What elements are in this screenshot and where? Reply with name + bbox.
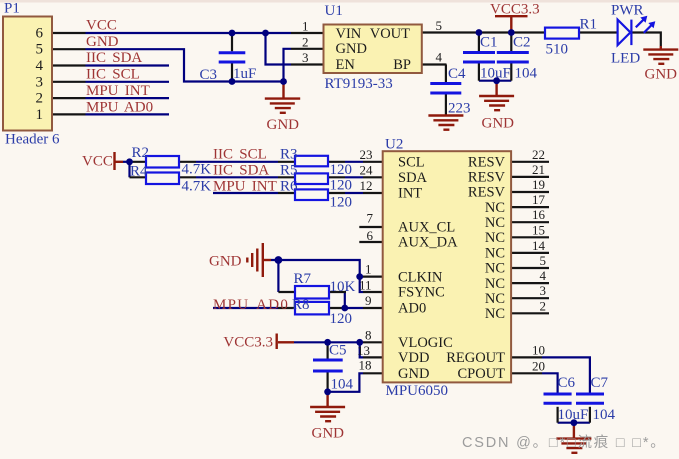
svg-text:NC: NC bbox=[485, 291, 505, 307]
svg-text:NC: NC bbox=[485, 230, 505, 246]
svg-text:120: 120 bbox=[330, 178, 353, 194]
svg-text:4: 4 bbox=[540, 268, 547, 283]
svg-text:RESV: RESV bbox=[468, 185, 506, 201]
svg-text:12: 12 bbox=[360, 178, 373, 193]
svg-text:15: 15 bbox=[532, 222, 545, 237]
svg-text:120: 120 bbox=[330, 195, 353, 211]
svg-text:5: 5 bbox=[436, 18, 443, 33]
svg-text:GND: GND bbox=[336, 41, 367, 57]
svg-text:13: 13 bbox=[357, 343, 370, 358]
svg-text:PWR: PWR bbox=[611, 3, 644, 19]
svg-text:21: 21 bbox=[532, 162, 545, 177]
svg-text:9: 9 bbox=[365, 293, 372, 308]
svg-text:2: 2 bbox=[540, 298, 547, 313]
svg-text:4: 4 bbox=[436, 50, 443, 65]
svg-text:GND: GND bbox=[482, 116, 515, 132]
svg-text:MPU INT: MPU INT bbox=[213, 179, 277, 195]
svg-text:C2: C2 bbox=[513, 35, 531, 51]
svg-text:510: 510 bbox=[546, 42, 569, 58]
svg-text:VDD: VDD bbox=[398, 350, 429, 366]
svg-text:LED: LED bbox=[611, 51, 640, 67]
svg-text:5: 5 bbox=[36, 42, 44, 58]
svg-text:NC: NC bbox=[485, 215, 505, 231]
svg-text:19: 19 bbox=[532, 177, 545, 192]
svg-text:FSYNC: FSYNC bbox=[398, 285, 445, 301]
svg-text:7: 7 bbox=[367, 211, 374, 226]
svg-text:3: 3 bbox=[540, 283, 547, 298]
svg-text:NC: NC bbox=[485, 200, 505, 216]
svg-text:NC: NC bbox=[485, 276, 505, 292]
svg-text:IIC SDA: IIC SDA bbox=[86, 50, 142, 66]
svg-text:VCC3.3: VCC3.3 bbox=[490, 2, 540, 18]
svg-text:C3: C3 bbox=[200, 67, 218, 83]
svg-text:1: 1 bbox=[365, 262, 372, 277]
svg-text:1: 1 bbox=[36, 107, 44, 123]
svg-text:22: 22 bbox=[532, 147, 545, 162]
svg-text:RESV: RESV bbox=[468, 170, 506, 186]
svg-text:R4: R4 bbox=[130, 164, 148, 180]
svg-text:NC: NC bbox=[485, 246, 505, 262]
svg-text:2: 2 bbox=[302, 34, 309, 49]
svg-text:17: 17 bbox=[532, 192, 546, 207]
svg-text:VOUT: VOUT bbox=[370, 26, 410, 42]
svg-text:IIC SCL: IIC SCL bbox=[86, 67, 140, 83]
svg-text:120: 120 bbox=[330, 311, 353, 327]
svg-text:3: 3 bbox=[36, 74, 44, 90]
svg-text:8: 8 bbox=[365, 328, 372, 343]
svg-text:VCC3.3: VCC3.3 bbox=[223, 335, 273, 351]
svg-text:R1: R1 bbox=[580, 17, 598, 33]
svg-text:MPU INT: MPU INT bbox=[86, 83, 150, 99]
svg-text:104: 104 bbox=[515, 66, 538, 82]
svg-text:14: 14 bbox=[532, 238, 546, 253]
svg-text:4.7K: 4.7K bbox=[182, 162, 212, 178]
svg-text:4: 4 bbox=[36, 58, 44, 74]
svg-text:GND: GND bbox=[312, 426, 345, 442]
svg-text:RESV: RESV bbox=[468, 155, 506, 171]
svg-text:1: 1 bbox=[302, 19, 309, 34]
svg-text:C7: C7 bbox=[591, 375, 609, 391]
svg-text:BP: BP bbox=[393, 57, 411, 73]
svg-text:10: 10 bbox=[532, 342, 545, 357]
svg-text:10K: 10K bbox=[330, 279, 356, 295]
svg-text:C4: C4 bbox=[448, 66, 466, 82]
svg-text:11: 11 bbox=[359, 278, 372, 293]
svg-text:MPU AD0: MPU AD0 bbox=[86, 100, 153, 116]
svg-text:R8: R8 bbox=[292, 297, 310, 313]
svg-text:2: 2 bbox=[36, 91, 44, 107]
svg-text:GND: GND bbox=[209, 254, 242, 270]
svg-text:U1: U1 bbox=[325, 3, 343, 19]
svg-text:U2: U2 bbox=[385, 137, 403, 153]
svg-text:GND: GND bbox=[86, 34, 119, 50]
svg-text:5: 5 bbox=[540, 253, 547, 268]
svg-text:CPOUT: CPOUT bbox=[457, 366, 505, 382]
svg-text:SCL: SCL bbox=[398, 155, 425, 171]
svg-text:IIC SCL: IIC SCL bbox=[213, 147, 267, 163]
svg-text:10uF: 10uF bbox=[480, 66, 511, 82]
svg-text:CSDN @。□*□流痕 □ □*。: CSDN @。□*□流痕 □ □*。 bbox=[462, 434, 667, 451]
svg-text:20: 20 bbox=[532, 358, 545, 373]
svg-text:R7: R7 bbox=[294, 271, 312, 287]
svg-text:223: 223 bbox=[448, 101, 471, 117]
svg-text:4.7K: 4.7K bbox=[182, 179, 212, 195]
svg-text:CLKIN: CLKIN bbox=[398, 269, 443, 285]
svg-text:MPU AD0: MPU AD0 bbox=[213, 297, 289, 313]
svg-text:Header 6: Header 6 bbox=[5, 132, 60, 148]
svg-text:C6: C6 bbox=[558, 375, 576, 391]
svg-text:3: 3 bbox=[302, 50, 309, 65]
svg-text:RT9193-33: RT9193-33 bbox=[325, 76, 393, 92]
svg-text:C5: C5 bbox=[329, 343, 347, 359]
svg-text:VIN: VIN bbox=[336, 26, 362, 42]
svg-text:R5: R5 bbox=[280, 163, 298, 179]
svg-text:VCC: VCC bbox=[82, 154, 113, 170]
svg-text:P1: P1 bbox=[4, 1, 20, 17]
svg-text:R3: R3 bbox=[280, 147, 298, 163]
svg-text:EN: EN bbox=[336, 57, 356, 73]
svg-text:23: 23 bbox=[360, 147, 373, 162]
svg-text:VLOGIC: VLOGIC bbox=[398, 335, 453, 351]
svg-text:1uF: 1uF bbox=[233, 66, 256, 82]
svg-text:IIC SDA: IIC SDA bbox=[213, 163, 269, 179]
svg-text:10uF: 10uF bbox=[558, 407, 589, 423]
svg-text:6: 6 bbox=[367, 228, 374, 243]
svg-text:16: 16 bbox=[532, 207, 546, 222]
svg-text:104: 104 bbox=[331, 377, 354, 393]
svg-text:24: 24 bbox=[360, 163, 374, 178]
svg-text:SDA: SDA bbox=[398, 170, 428, 186]
svg-text:6: 6 bbox=[36, 26, 44, 42]
svg-text:REGOUT: REGOUT bbox=[446, 350, 505, 366]
svg-text:GND: GND bbox=[267, 117, 300, 133]
svg-text:NC: NC bbox=[485, 261, 505, 277]
svg-text:104: 104 bbox=[593, 407, 616, 423]
svg-text:R2: R2 bbox=[132, 145, 150, 161]
svg-text:AUX_CL: AUX_CL bbox=[398, 220, 455, 236]
svg-text:GND: GND bbox=[645, 67, 678, 83]
svg-text:MPU6050: MPU6050 bbox=[386, 383, 449, 399]
svg-text:120: 120 bbox=[330, 162, 353, 178]
svg-text:GND: GND bbox=[398, 366, 429, 382]
svg-text:AD0: AD0 bbox=[398, 301, 426, 317]
svg-text:R6: R6 bbox=[280, 179, 298, 195]
svg-text:NC: NC bbox=[485, 306, 505, 322]
svg-text:18: 18 bbox=[359, 358, 372, 373]
svg-text:C1: C1 bbox=[480, 35, 498, 51]
svg-text:VCC: VCC bbox=[86, 18, 117, 34]
svg-text:AUX_DA: AUX_DA bbox=[398, 235, 458, 251]
svg-text:INT: INT bbox=[398, 186, 422, 202]
